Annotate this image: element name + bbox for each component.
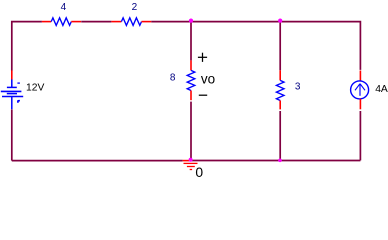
ground pin (red on rail)	[183, 160, 191, 162]
wire middle branch upper	[190, 22, 192, 61]
ground symbol 0	[184, 163, 198, 169]
plus sign of vo	[198, 53, 207, 62]
resistor R4 value 3 (right-middle vertical)	[276, 70, 301, 109]
junction ground node	[189, 158, 193, 162]
svg-text:0: 0	[195, 164, 203, 180]
voltage source V1 12V (battery, left branch)	[1, 70, 45, 109]
junction node A (top middle)	[189, 19, 193, 23]
junction node B (top right-middle)	[278, 19, 282, 23]
minus sign of vo	[199, 94, 207, 96]
wire bottom rail left segment	[12, 160, 183, 162]
svg-text:3: 3	[295, 82, 301, 93]
wire top rail node B to top-right corner	[280, 22, 360, 70]
resistor R1 value 4 (top-left horizontal)	[42, 2, 81, 25]
svg-text:4: 4	[61, 2, 67, 13]
junction bottom node	[278, 159, 282, 163]
svg-text:2: 2	[132, 2, 138, 13]
wire top rail between R4 and R2	[81, 21, 111, 23]
wire left branch lower	[11, 109, 13, 160]
svg-text:4A: 4A	[375, 84, 388, 95]
svg-text:vo: vo	[201, 72, 215, 87]
wire branch 2 lower	[279, 111, 281, 160]
wire top rail node A to node B	[191, 21, 280, 23]
wire branch 2 upper	[279, 22, 281, 71]
resistor R3 value 8 (middle vertical)	[170, 60, 195, 100]
resistor R2 value 2 (top horizontal)	[111, 2, 151, 25]
wire top rail left segment	[12, 22, 42, 71]
svg-text:12V: 12V	[26, 83, 44, 94]
wire top rail right of R2 to node A	[151, 21, 191, 23]
wire middle branch lower	[190, 102, 192, 161]
wire bottom rail right segment	[191, 160, 361, 162]
current source I1 4A (right branch)	[351, 71, 388, 110]
wire right branch lower	[359, 111, 361, 160]
svg-text:8: 8	[170, 73, 176, 84]
